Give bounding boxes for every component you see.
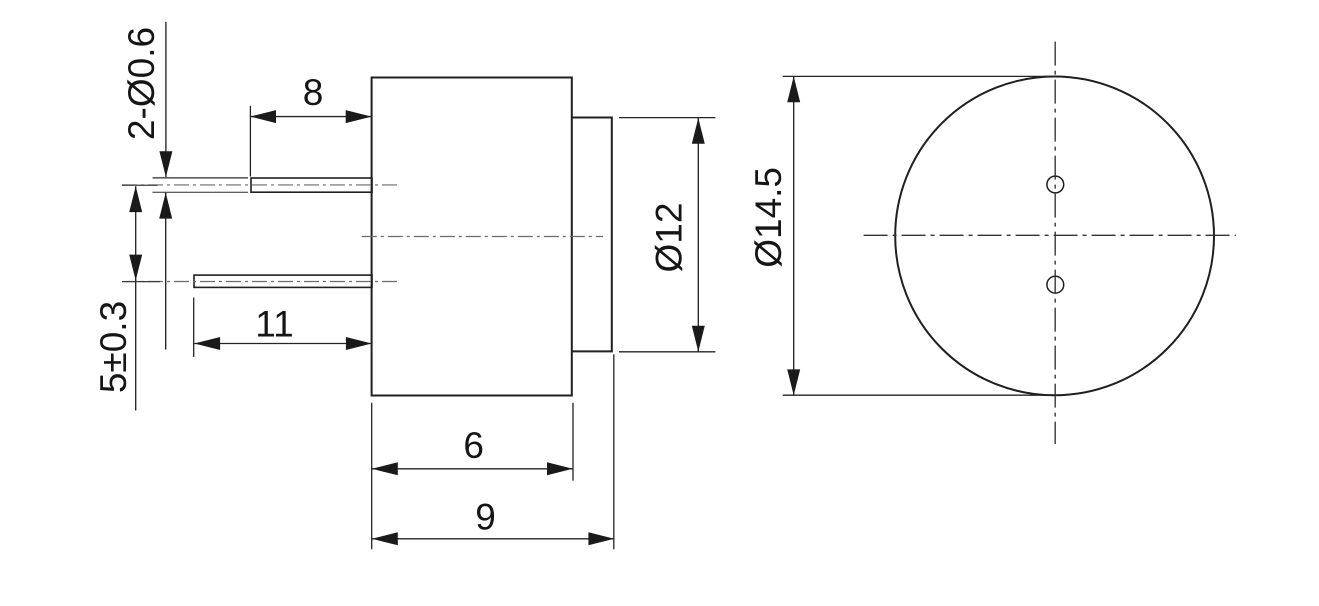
svg-text:8: 8 xyxy=(303,72,324,113)
svg-text:6: 6 xyxy=(463,425,484,466)
svg-text:5±0.3: 5±0.3 xyxy=(93,301,134,393)
svg-text:2-Ø0.6: 2-Ø0.6 xyxy=(121,27,162,140)
svg-text:11: 11 xyxy=(255,303,293,344)
svg-text:9: 9 xyxy=(475,496,496,537)
svg-text:Ø14.5: Ø14.5 xyxy=(748,167,789,268)
svg-text:Ø12: Ø12 xyxy=(649,203,690,273)
